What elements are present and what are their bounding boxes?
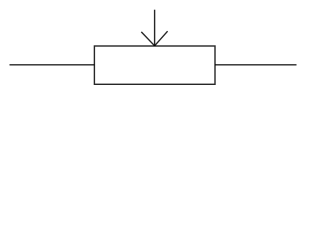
resistor body (variable resistor) xyxy=(94,46,215,84)
arrow wiper shaft xyxy=(154,10,156,46)
arrowhead right wing xyxy=(155,31,168,46)
wire right lead xyxy=(215,64,297,66)
wire left lead xyxy=(10,64,95,66)
arrowhead left wing xyxy=(141,32,154,46)
